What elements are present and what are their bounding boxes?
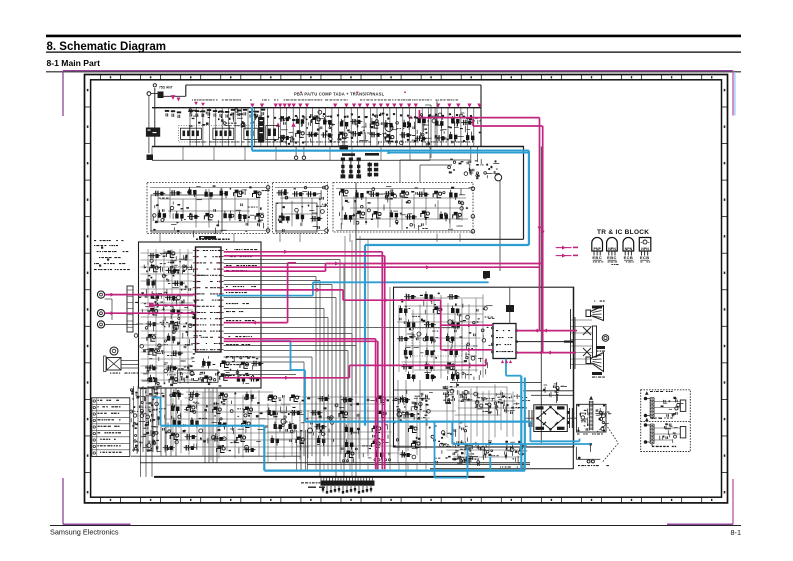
speaker labels [592,306,602,309]
option box parts 1 [674,398,676,399]
amp input wire [509,287,511,323]
middle bottom circuits [330,416,333,419]
bottom-left wire grid [164,389,166,453]
sound section wire grid [398,305,400,372]
cyan wire top bus [252,150,529,152]
right crop guide magenta [732,71,734,116]
AC cord elbow [575,447,577,460]
test point circles [294,156,297,159]
magenta in y322 [224,322,288,324]
cyan wire tuner drop [251,107,253,151]
left crop guide [62,71,64,116]
voltage legend dumbbells [341,158,345,162]
cyan wire left drop [364,245,366,426]
svg-text:NPN: NPN [641,247,649,251]
IF module 1 [180,128,201,139]
option box ladder 2 [649,424,651,444]
svg-text:EBC: EBC [592,255,602,260]
bottom-left circuits [193,401,195,404]
bridge left cap [528,410,530,427]
option box terminals 2 [644,424,647,427]
audio block outline [394,287,574,447]
option box ladder 1 [649,398,651,418]
module dotted outline [179,126,259,143]
jack ground wires [105,298,112,300]
AC inlet crossed box [107,358,122,371]
svg-text:”: ” [648,241,650,246]
band right elbow wires [430,105,432,147]
sub box above bottom section [178,370,218,382]
label under box1 [199,236,216,239]
dashed amp box 2 [273,183,328,234]
speaker top [586,310,591,317]
magenta IC out y271 with jog [224,270,326,272]
AC plug prongs [587,460,590,463]
main block outline [139,242,262,388]
speaker connector [570,309,572,369]
voltage legend labels [342,153,355,156]
cyan wire from IC [217,295,313,297]
front connector bar [127,286,133,332]
speaker bottom [586,357,591,364]
magenta trunk arrows [538,227,542,231]
keyboard label [301,482,304,483]
voltage legend grid [368,163,372,167]
tuner band bottom bus [152,146,524,148]
legend package 1 [592,237,603,251]
phones jack [110,347,118,355]
svg-text:ECB: ECB [640,255,650,260]
bottom-left crop guide [62,478,64,524]
bus lines bottom [131,455,301,457]
title rule top [46,35,741,38]
center ladder verticals tall [344,236,346,463]
cyan wire right drop [528,151,530,245]
middle bottom wire grid [267,403,269,462]
power labels [452,459,454,460]
band bottom labels [190,141,191,144]
cyan wire under amp [505,359,507,376]
parts between bridge and transformer [569,408,571,428]
magenta IC out y339 pair [224,338,376,340]
option box IC 2 [680,427,686,438]
border cell labels top/bottom [110,76,111,78]
header rule purple [63,70,733,72]
legend package 2 [607,237,618,251]
magenta short y305 [152,304,196,306]
dense component column [133,414,136,417]
transformer T801 frame [577,404,606,432]
left legend text block [94,240,96,241]
cyan wire right box [529,422,531,442]
header rule black [46,71,741,73]
svg-text:TR & IC BLOCK: TR & IC BLOCK [597,229,649,236]
tuner input wires [148,96,150,147]
band vertical wires [189,108,191,147]
footer rule [50,525,741,527]
bottom mid clusters 2 [403,454,406,456]
sound box inner wires [399,160,401,182]
tuner can [146,128,160,137]
inner border [91,80,722,497]
svg-text:“: “ [641,241,643,246]
tuner band lower rail [152,159,430,161]
band component clusters [289,132,294,134]
connector table [92,398,130,457]
option box label 1 [652,418,654,419]
dashed amp box 3 [333,183,473,233]
option box IC 1 [680,400,686,411]
bus connector blob [340,145,349,149]
svg-text:EBC: EBC [607,255,617,260]
band transistor [385,124,393,132]
long vertical to bottom [540,147,542,444]
wire fan from IC to right [224,259,340,261]
wires above sound box [470,147,472,163]
option box label 2 [652,446,654,447]
cyan wire to transformer [451,422,453,444]
border ticks top and bottom [100,75,102,80]
dots above bus [342,460,344,462]
power wire grid [446,386,448,437]
magenta center arrows down [374,439,378,443]
power components left [415,395,417,398]
AC inlet label [110,373,111,374]
cyan wire keyboard branch [152,397,161,399]
svg-text:PBA PA/TU COMP TADA + TRANS/FR: PBA PA/TU COMP TADA + TRANS/FRNASL [294,92,385,97]
tuner band outline [186,84,481,86]
cyan second bus segment [388,152,529,154]
antenna input [154,88,156,147]
pink signal flags on bus [250,104,254,108]
right side labels of IC block [226,249,227,250]
svg-text:8-1: 8-1 [730,528,741,537]
pink arrows mid band [276,122,280,126]
magenta IC out y256 [224,255,385,257]
magenta RCA line 1 [105,294,196,296]
caps row in band [165,113,167,116]
transformer winding ladder [588,401,590,431]
magenta RCA line 2 [105,312,196,314]
border ticks sides [85,106,91,108]
power section frame lines [523,390,573,392]
magenta trunk top right A [419,117,539,119]
magenta amp outputs [516,330,577,332]
magenta IC out y267 [224,266,540,268]
band small caps row right [267,116,269,118]
speaker X marks [583,327,591,335]
IF module 3 [244,128,258,139]
option box terminals 1 [644,397,647,400]
bridge wires [524,417,534,419]
SAW filter [258,117,264,143]
keyboard connector comb [320,478,322,484]
sound dotted box [412,328,462,356]
svg-text:8. Schematic Diagram: 8. Schematic Diagram [47,41,167,53]
cyan wire mid drop [261,340,291,342]
magenta trunk top right B [473,125,543,127]
sound section components [453,326,455,329]
magenta under-amp arrows [501,360,504,363]
cyan bus bottom [264,470,525,472]
svg-text:NPN: NPN [625,247,633,251]
sound transistor Q [495,174,502,181]
cyan bus upper [305,421,530,423]
IC block left wires [141,252,193,254]
legend package 4 [639,238,651,252]
audio amp IC [493,324,516,359]
svg-text:75Ω ANT: 75Ω ANT [159,86,173,90]
RCA jack 1 [97,291,104,298]
sound IF box [523,147,525,240]
border cell labels sides [87,89,89,91]
cyan wire box bottom [365,244,529,246]
sound box components [459,163,462,165]
IC601 label [196,239,198,241]
svg-text:8-1 Main Part: 8-1 Main Part [47,58,101,68]
bottom-right crop guide [732,479,734,524]
option dashed box outer [641,390,691,452]
svg-text:PNP: PNP [594,247,602,251]
wires from dashed row down [159,234,161,243]
tuner band main bus [152,107,481,109]
headphone jack [602,335,609,342]
right crop guide cyan [734,72,736,116]
IF module 2 [213,128,234,139]
IC601 inner text [198,250,200,251]
block bottom-right components [245,382,249,384]
svg-text:NPN: NPN [608,247,616,251]
left side components of IC block [168,261,170,264]
IC module 4 [266,126,279,140]
ladder verticals center-left [204,388,206,463]
amp center output [516,341,574,343]
sound box left wire [355,183,357,395]
transformer side parts [581,416,585,420]
RCA jack 3 [97,321,104,328]
magenta long y378 [224,377,350,379]
power top wires [450,382,541,384]
dashed amp box 1 [147,183,268,234]
cyan wire stub [489,457,491,471]
IC601 pins [193,250,196,252]
AC cord dashed funnel [606,424,619,443]
option box parts 2 [668,424,670,427]
legend package 3 [623,237,634,251]
band labels under bus [192,99,193,102]
svg-text:Samsung Electronics: Samsung Electronics [50,528,119,537]
title rule bottom [46,51,741,53]
magenta IC out y290 with jog [224,289,343,291]
magenta IC out y252 [224,251,383,253]
legend arrows [556,247,572,249]
svg-text:ECB: ECB [624,255,634,260]
RCA jack 2 [97,310,104,317]
IC601 body [196,247,222,352]
component at box bottom [483,271,490,278]
cyan wire drop a [434,422,436,478]
pink flags near antenna [171,95,176,100]
bridge rectifier D801 [534,405,568,432]
bus stub wires [296,463,298,471]
outer border [85,75,728,503]
